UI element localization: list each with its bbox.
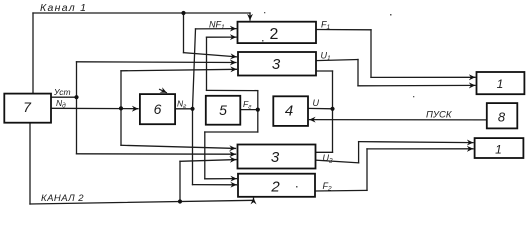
svg-text:Nг: Nг: [177, 99, 187, 111]
svg-text:Fг: Fг: [243, 99, 252, 111]
svg-text:Уст: Уст: [53, 87, 71, 97]
svg-text:U2: U2: [323, 153, 334, 165]
svg-text:7: 7: [23, 99, 32, 115]
svg-text:U: U: [313, 98, 320, 108]
svg-text:Канал 1: Канал 1: [40, 2, 87, 14]
svg-text:2: 2: [270, 26, 279, 43]
svg-text:4: 4: [285, 103, 293, 120]
svg-text:1: 1: [497, 77, 504, 91]
svg-text:5: 5: [219, 102, 227, 118]
svg-text:КАНАЛ 2: КАНАЛ 2: [41, 193, 84, 204]
svg-text:F1: F1: [321, 20, 331, 32]
svg-text:1: 1: [495, 143, 502, 157]
svg-text:6: 6: [154, 101, 162, 117]
svg-text:ПУСК: ПУСК: [426, 110, 453, 121]
svg-text:F2: F2: [323, 181, 333, 193]
svg-text:3: 3: [271, 149, 280, 166]
svg-text:Nд: Nд: [56, 98, 66, 110]
svg-text:2: 2: [270, 179, 280, 196]
svg-text:8: 8: [498, 110, 506, 125]
svg-text:3: 3: [272, 56, 281, 73]
svg-text:NF1: NF1: [209, 20, 225, 32]
svg-text:U1: U1: [321, 51, 332, 63]
